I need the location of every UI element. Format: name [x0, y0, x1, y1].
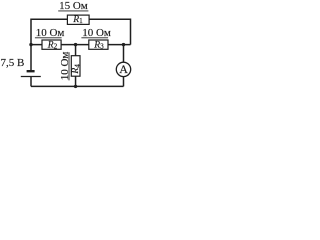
resistor R3 — [89, 39, 108, 50]
resistor R1 — [67, 14, 89, 25]
wire R4 branch — [75, 45, 77, 87]
label 10 Ом above R2 — [35, 27, 64, 39]
wire bottom — [31, 85, 124, 87]
ammeter A — [116, 62, 130, 77]
resistor R2 — [42, 39, 61, 50]
wire ammeter branch — [123, 45, 125, 87]
label 15 Ом — [58, 0, 88, 12]
svg-text:10 Ом: 10 Ом — [36, 27, 65, 39]
resistor R4 — [70, 56, 81, 76]
node dot ammeter top junction — [122, 43, 125, 46]
svg-text:A: A — [119, 62, 128, 76]
wire left battery branch upper — [30, 45, 32, 71]
label 10 Ом beside R4 — [59, 52, 71, 81]
node dot R4 top junction — [74, 43, 77, 46]
svg-text:15 Ом: 15 Ом — [59, 0, 88, 12]
battery GB1 plates — [21, 71, 41, 76]
wire middle branch — [31, 44, 131, 46]
label 10 Ом above R3 — [81, 27, 110, 39]
wire left battery branch lower — [30, 77, 32, 87]
wire top branch — [31, 19, 131, 44]
svg-text:7,5 В: 7,5 В — [1, 57, 25, 69]
svg-text:10 Ом: 10 Ом — [82, 27, 111, 39]
node dot R4 bottom junction — [74, 85, 77, 88]
node dot left junction — [29, 43, 32, 46]
